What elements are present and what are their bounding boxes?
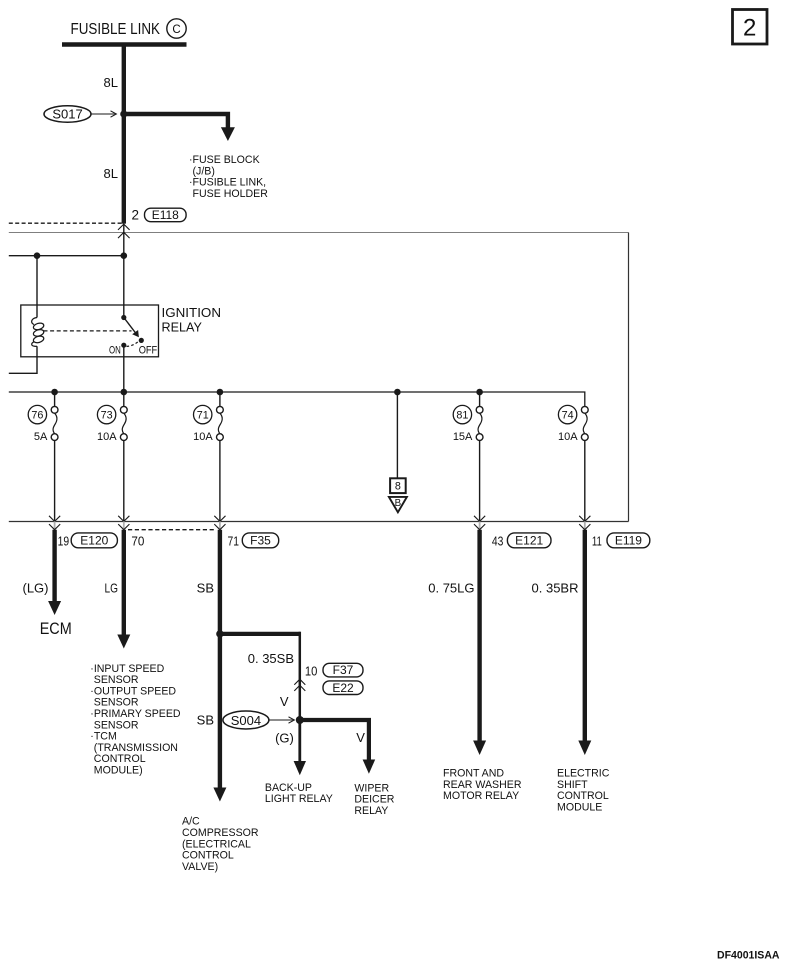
fuse F73 — [120, 392, 127, 521]
svg-text:73: 73 — [101, 410, 113, 422]
connector E22 — [323, 681, 363, 695]
connector E119 — [607, 533, 650, 548]
svg-text:MODULE): MODULE) — [94, 765, 143, 777]
svg-text:2: 2 — [743, 15, 756, 42]
wire branch to wiper deicer — [300, 720, 369, 761]
connector F37 — [323, 663, 363, 677]
svg-text:CONTROL: CONTROL — [557, 790, 609, 802]
svg-text:2: 2 — [132, 207, 140, 222]
boundary crossing pin11 — [579, 516, 590, 530]
junction dot SB branch — [216, 630, 223, 637]
switch pivot node — [121, 315, 126, 320]
boundary crossing pin19 — [49, 516, 60, 530]
wire to speed sensors — [122, 530, 126, 636]
connector E120 — [71, 533, 117, 548]
svg-text:CONTROL: CONTROL — [94, 753, 146, 765]
wire 0.35SB vertical — [299, 632, 302, 720]
svg-text:SHIFT: SHIFT — [557, 779, 588, 791]
svg-text:DF4001ISAA: DF4001ISAA — [717, 949, 780, 961]
svg-text:10A: 10A — [97, 431, 117, 443]
svg-text:SENSOR: SENSOR — [94, 719, 139, 731]
svg-text:MODULE: MODULE — [557, 802, 602, 814]
offpage connector B triangle — [389, 497, 407, 512]
label IGNITION RELAY — [162, 306, 222, 334]
ignition relay box — [21, 305, 159, 357]
dashed throw arc — [127, 342, 139, 347]
wire to relay coil — [36, 256, 38, 318]
svg-text:RELAY: RELAY — [354, 805, 388, 817]
arrow S017 to junction — [91, 111, 116, 117]
svg-text:S017: S017 — [52, 107, 82, 122]
ref circle 73 — [97, 405, 115, 423]
junction dot bus fuse81 — [476, 389, 483, 396]
boundary crossing pin70 — [118, 516, 129, 530]
fuse F74 — [581, 406, 588, 521]
svg-text:8L: 8L — [104, 166, 118, 181]
svg-text:81: 81 — [456, 410, 468, 422]
relay coil L1 — [32, 318, 45, 347]
wire SB main — [218, 530, 222, 789]
svg-text:SENSOR: SENSOR — [94, 697, 139, 709]
svg-text:C: C — [172, 24, 180, 36]
svg-text:10: 10 — [305, 664, 318, 679]
svg-text:SENSOR: SENSOR — [94, 674, 139, 686]
switch blade — [124, 318, 136, 334]
ref circle 81 — [453, 405, 471, 423]
splice S004 — [223, 711, 269, 729]
svg-text:·INPUT SPEED: ·INPUT SPEED — [90, 663, 164, 675]
svg-text:BACK-UP: BACK-UP — [265, 782, 312, 794]
svg-text:RELAY: RELAY — [162, 321, 203, 335]
svg-text:ON: ON — [109, 344, 121, 356]
connector F35 — [242, 533, 278, 548]
dashed coil-contact link — [44, 330, 132, 332]
svg-text:·FUSE BLOCK: ·FUSE BLOCK — [189, 154, 260, 166]
svg-text:E120: E120 — [80, 534, 108, 548]
wire to connector 8B — [396, 392, 398, 478]
fusible link busbar — [62, 42, 187, 47]
arrow S004 to junction — [269, 717, 294, 723]
svg-text:B: B — [395, 498, 402, 509]
arrow to speed sensors — [117, 635, 130, 649]
svg-text:(G): (G) — [275, 731, 294, 746]
svg-text:19: 19 — [58, 533, 70, 548]
svg-text:FRONT AND: FRONT AND — [443, 768, 504, 780]
svg-text:0. 75LG: 0. 75LG — [428, 581, 474, 596]
ref circle 71 — [194, 405, 212, 423]
svg-text:LIGHT RELAY: LIGHT RELAY — [265, 793, 333, 805]
arrow to AC compressor — [213, 788, 226, 802]
label electric shift control module — [557, 768, 610, 814]
svg-text:0. 35BR: 0. 35BR — [532, 581, 579, 596]
dashed tie line pins 70-71 — [128, 529, 214, 531]
svg-text:·FUSIBLE LINK,: ·FUSIBLE LINK, — [189, 177, 266, 189]
connector E118 — [145, 208, 187, 222]
svg-text:71: 71 — [197, 410, 209, 422]
wire to washer motor relay — [477, 530, 481, 742]
svg-text:0. 35SB: 0. 35SB — [248, 651, 294, 666]
svg-text:A/C: A/C — [182, 816, 200, 828]
svg-text:(LG): (LG) — [23, 581, 49, 596]
svg-text:V: V — [280, 694, 289, 709]
ref circle 74 — [558, 405, 576, 423]
arrow to washer motor relay — [473, 741, 486, 756]
junction dot S004 — [296, 716, 304, 724]
svg-text:IGNITION: IGNITION — [162, 306, 222, 320]
svg-text:43: 43 — [492, 533, 504, 548]
arrow to ECM — [48, 601, 61, 615]
switch ON contact node — [121, 343, 126, 348]
splice S017 — [44, 106, 91, 122]
svg-text:(ELECTRICAL: (ELECTRICAL — [182, 838, 251, 850]
svg-text:76: 76 — [31, 410, 43, 422]
label fuse block text — [189, 154, 268, 200]
fuse F76 — [51, 392, 58, 521]
arrow to wiper deicer relay — [363, 760, 376, 774]
svg-text:·OUTPUT SPEED: ·OUTPUT SPEED — [90, 685, 176, 697]
svg-text:15A: 15A — [453, 431, 473, 443]
wire 8L main vertical — [122, 45, 126, 224]
wire E118 down to relay — [123, 224, 125, 317]
wire branch to fuse block — [124, 114, 228, 129]
svg-text:DEICER: DEICER — [354, 794, 394, 806]
svg-text:5A: 5A — [34, 431, 48, 443]
svg-text:(TRANSMISSION: (TRANSMISSION — [94, 742, 178, 754]
svg-text:E22: E22 — [332, 681, 354, 695]
junction node switch feed — [121, 252, 128, 259]
double chevron F37-E22 crossing — [294, 679, 305, 691]
junction node coil feed — [34, 252, 41, 259]
page number box 2 — [733, 10, 768, 45]
junction node S017 dot — [120, 110, 127, 117]
arrow to electric shift control module — [578, 741, 591, 756]
bus wire — [9, 392, 585, 406]
svg-text:REAR WASHER: REAR WASHER — [443, 779, 522, 791]
fuse F71 — [217, 392, 224, 521]
svg-text:S004: S004 — [231, 713, 261, 728]
wire coil return — [9, 346, 37, 373]
svg-text:MOTOR RELAY: MOTOR RELAY — [443, 790, 519, 802]
wire switch to bus — [123, 345, 125, 392]
chevron at E118 entry — [118, 224, 130, 230]
label speed sensors TCM — [90, 663, 181, 777]
svg-text:74: 74 — [562, 410, 574, 422]
boundary crossing pin43 — [474, 516, 485, 530]
label backup light relay — [265, 782, 333, 805]
arrow to fuse block — [221, 127, 235, 141]
junction dot bus fuse73 — [121, 389, 128, 396]
svg-text:8: 8 — [395, 481, 401, 493]
svg-text:LG: LG — [105, 581, 119, 596]
svg-text:10A: 10A — [558, 431, 578, 443]
svg-text:F35: F35 — [250, 534, 271, 548]
svg-text:SB: SB — [197, 712, 214, 727]
wire to ECM — [52, 530, 56, 602]
svg-text:COMPRESSOR: COMPRESSOR — [182, 827, 259, 839]
svg-text:ECM: ECM — [40, 620, 72, 638]
chevron at boundary line — [118, 232, 130, 238]
wire to backup light relay — [298, 720, 301, 762]
junction dot bus fuse71 — [217, 389, 224, 396]
label front and rear washer motor relay — [443, 768, 522, 803]
label AC compressor — [182, 816, 259, 873]
svg-text:VALVE): VALVE) — [182, 861, 218, 873]
svg-text:·PRIMARY SPEED: ·PRIMARY SPEED — [90, 708, 181, 720]
svg-text:(J/B): (J/B) — [193, 165, 215, 177]
svg-text:FUSIBLE LINK: FUSIBLE LINK — [71, 21, 161, 38]
svg-text:8L: 8L — [104, 75, 118, 90]
junction block outline (top boundary, right edge, bottom boundary) — [9, 232, 629, 234]
wire to electric shift control module — [583, 530, 587, 742]
junction dot bus connector8B — [394, 389, 401, 396]
svg-text:11: 11 — [592, 533, 602, 548]
wire feed row — [9, 255, 124, 257]
svg-text:E119: E119 — [615, 534, 642, 548]
svg-text:·TCM: ·TCM — [90, 731, 116, 743]
svg-text:F37: F37 — [333, 663, 354, 677]
connector E121 — [507, 533, 551, 548]
svg-text:WIPER: WIPER — [354, 782, 389, 794]
svg-text:71: 71 — [228, 533, 240, 548]
label wiper deicer relay — [354, 782, 394, 817]
fuse F81 — [476, 392, 483, 521]
svg-text:10A: 10A — [193, 431, 213, 443]
arrow to backup light relay — [294, 761, 306, 775]
svg-text:OFF: OFF — [139, 344, 158, 356]
connector circle C — [167, 19, 186, 38]
switch OFF contact node — [139, 338, 144, 343]
wire branch to F37 — [220, 632, 301, 636]
svg-text:ELECTRIC: ELECTRIC — [557, 768, 610, 780]
switch blade arrowhead — [132, 330, 139, 337]
svg-text:E118: E118 — [152, 208, 179, 222]
offpage connector 8 box — [390, 478, 406, 493]
svg-text:E121: E121 — [515, 534, 543, 548]
ref circle 76 — [28, 405, 46, 423]
svg-text:CONTROL: CONTROL — [182, 850, 234, 862]
svg-text:70: 70 — [131, 533, 144, 548]
junction dot bus fuse76 — [51, 389, 58, 396]
svg-text:V: V — [356, 730, 365, 745]
dashed boundary line left of E118 — [9, 222, 122, 224]
svg-text:SB: SB — [197, 581, 214, 596]
svg-text:FUSE HOLDER: FUSE HOLDER — [193, 188, 269, 200]
boundary crossing pin71 — [214, 516, 225, 530]
